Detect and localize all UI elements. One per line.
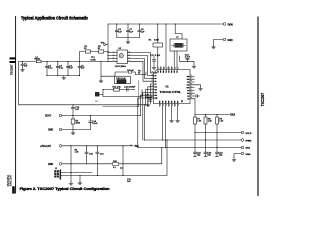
wire GND terminal [214, 40, 224, 46]
junction (166,24) [165, 23, 166, 24]
ground top cap bank [127, 38, 129, 40]
junction (108,52.5) [107, 52, 108, 53]
terminal GND left [59, 128, 62, 131]
wire bus SCL [195, 132, 241, 134]
svg-text:JUNE 2007: JUNE 2007 [11, 174, 13, 186]
junction (97.3,175.5) [97, 175, 98, 176]
capacitor C4 [67, 62, 69, 76]
junction (71,172.6) [70, 172, 71, 173]
svg-text:GND: GND [246, 154, 251, 156]
resistor R2 on rail B [99, 50, 104, 53]
junction (217,147.5) [216, 147, 217, 148]
svg-text:C17 0.1uF: C17 0.1uF [151, 55, 161, 57]
svg-text:C9 1uF: C9 1uF [127, 70, 135, 72]
resistor R5 vertical [72, 116, 74, 130]
junction (123,175.5) [122, 175, 123, 176]
junction (162.6,140) [162, 139, 163, 140]
ground top right [212, 45, 216, 49]
capacitor C15 [86, 146, 88, 164]
svg-text:C12 1000pF: C12 1000pF [124, 87, 136, 89]
svg-text:XOUT: XOUT [45, 116, 52, 118]
svg-text:Typical Application Circuit Sc: Typical Application Circuit Schematic [21, 15, 88, 20]
wire row1 net [101, 62, 146, 77]
crystal Y1 [172, 43, 186, 47]
terminal GND right [241, 152, 244, 155]
pin1 mark [181, 100, 183, 102]
QFN bottom pins [160, 104, 178, 107]
svg-text:Figure 2. TSC2007 Typical Circ: Figure 2. TSC2007 Typical Circuit Config… [20, 187, 110, 191]
terminal SDA [241, 139, 244, 142]
QFN left pins [151, 76, 154, 82]
terminal VIN [223, 23, 226, 26]
junction (147.8,104.8) [147, 104, 148, 105]
junction (47,61.5) [46, 61, 47, 62]
terminal GND top [223, 38, 226, 41]
svg-text:REA: REA [230, 114, 235, 117]
junction (157.8,24) [157, 23, 158, 24]
capacitor C8 [138, 24, 140, 38]
junction (47,75.5) [46, 75, 47, 76]
ground cap bank [62, 76, 66, 80]
junction (187.5,61.3) [187, 61, 188, 62]
capacitor C12 row [126, 88, 128, 91]
testpoint TP2 [104, 44, 106, 46]
wire block return [103, 81, 139, 107]
junction (68,75.5) [67, 75, 68, 76]
terminal XOUT [59, 114, 62, 117]
wire bus SCL lower [61, 140, 167, 176]
junction (217,147.5) [216, 147, 217, 148]
junction (205.5,114.5) [205, 114, 206, 115]
wire XOUT [62, 115, 140, 117]
wire V1 riser to top rail C [107, 24, 109, 62]
ground R5 [71, 131, 75, 135]
svg-text:SDA: SDA [246, 146, 251, 149]
junction (71,163.8) [70, 163, 71, 164]
junction (167,140) [166, 139, 167, 140]
junction (22.5,61.5) [22, 61, 23, 62]
terminal PENIRQ [241, 146, 244, 149]
resistor R9 pullup [216, 115, 218, 148]
wire left branch down to lower rail [19, 62, 148, 105]
terminal +5V [59, 144, 62, 147]
wire R6 gnd drop [70, 164, 72, 182]
junction (144.3,104.8) [144, 104, 145, 105]
capacitor C17 left of QFN [153, 57, 155, 66]
junction (123,145.8) [122, 145, 123, 146]
junction (73,115.5) [72, 115, 73, 116]
page left rule [15, 16, 17, 194]
svg-text:GND: GND [48, 164, 53, 166]
capacitor C24 [216, 148, 219, 157]
resistor R10 on wire [113, 162, 119, 165]
oscillator U2 box [117, 50, 128, 64]
QFN right pins [190, 76, 194, 98]
wire bus PENIRQ [138, 147, 242, 149]
junction (101,61.5) [100, 61, 101, 62]
junction (80,175.5) [79, 175, 80, 176]
wire gnd2 rail [62, 148, 162, 164]
QFN top pins [158, 67, 177, 70]
capacitor C7 [127, 24, 129, 38]
capacitor C2 [46, 62, 48, 76]
terminal SCL [241, 131, 244, 134]
wire U2 left pins [108, 53, 117, 62]
svg-text:SCLK: SCLK [246, 133, 252, 135]
wire XOUT feed riser [140, 95, 153, 115]
wire row3 lower [103, 90, 142, 97]
U2 pin label smudges [113, 52, 130, 62]
wire top cap bank bottom rail [117, 37, 140, 39]
wire pullup rail [195, 114, 229, 116]
capacitor C14 [89, 116, 91, 130]
crystal Y1 box [170, 39, 187, 51]
left margin logo bars [10, 57, 16, 63]
resistor R12 on row1 [128, 71, 131, 73]
svg-text:OSC12MHz: OSC12MHz [115, 66, 126, 68]
svg-text:1000pF: 1000pF [145, 97, 153, 99]
ferrite bead L1 [36, 60, 41, 63]
svg-text:TOUCH CTRL: TOUCH CTRL [160, 91, 182, 94]
svg-text:TSC2007: TSC2007 [260, 92, 265, 106]
resistor R6 [70, 146, 72, 164]
oscillator U2 circle [119, 54, 123, 58]
junction (156.6,98) [156, 97, 157, 98]
junction (134,24) [127, 23, 128, 24]
junction (147,24) [139, 23, 140, 24]
wire GND left [62, 129, 90, 131]
svg-text:GND: GND [48, 130, 53, 132]
wire QFN bottom-left thermal [148, 98, 154, 103]
component box U3 [115, 76, 131, 84]
junction (68,61.5) [67, 61, 68, 62]
junction (161.8,147.5) [161, 147, 162, 148]
junction (79.7,61.5) [79, 61, 80, 62]
svg-text:R11 2.0k: R11 2.0k [113, 87, 122, 89]
component TP dark [95, 92, 99, 96]
ground row1 [100, 76, 102, 79]
connector J1 pads [54, 169, 61, 179]
page right rule [257, 17, 259, 197]
svg-text:5VIN: 5VIN [228, 25, 233, 27]
wire GND T4 [234, 154, 241, 158]
wire riser to upper rail B [79, 52, 81, 76]
resistor R3 0-ohm jumper [157, 24, 159, 67]
junction (57.8,61.5) [57, 61, 58, 62]
junction (145.3,104.8) [145, 104, 146, 105]
wire U2 right pin 3 [128, 59, 154, 79]
resistor R8 pullup [205, 115, 207, 141]
svg-text:BEAD: BEAD [35, 58, 41, 61]
junction (165.6,147.5) [165, 147, 166, 148]
ground stub x80 [79, 176, 81, 182]
junction (205.5,140) [205, 139, 206, 140]
junction (71,145.8) [70, 145, 71, 146]
wire bus SDA [144, 139, 241, 141]
junction (140.3,115.5) [140, 115, 141, 116]
junction (97.3,145.8) [97, 145, 98, 146]
wire J1 upper [61, 172, 92, 174]
junction (195,132.5) [194, 132, 195, 133]
IC U1 QFN body [154, 70, 190, 104]
svg-text:5VA: 5VA [135, 145, 140, 148]
junction (175.2,24) [175, 23, 176, 24]
wire cap-bank bottom rail [47, 75, 80, 77]
ground C1 [21, 68, 25, 72]
capacitor C3 [57, 62, 59, 76]
junction (108,55.5) [107, 55, 108, 56]
wire drop from 5V rail [122, 146, 124, 176]
junction (103,89.6) [102, 89, 103, 90]
junction (121,24) [116, 23, 117, 24]
capacitor C23 [204, 140, 207, 156]
wire staircase left pins [138, 98, 154, 148]
wire rail drop to QFN top [165, 24, 167, 67]
capacitor C13 between rails [72, 105, 74, 116]
wire crystal to QFN pins [174, 51, 177, 67]
junction (108,58.5) [107, 58, 108, 59]
capacitor C6 [116, 24, 118, 38]
svg-text:0.0W: 0.0W [154, 39, 159, 41]
QFN pin name smudges [154, 70, 189, 103]
junction (79.3,75.5) [79, 75, 80, 76]
junction (57.8,75.5) [57, 75, 58, 76]
svg-text:4.7uF: 4.7uF [185, 57, 191, 59]
wire U2 right pin 2 [128, 56, 154, 76]
capacitor C5 on riser [78, 66, 81, 67]
junction (73,104.8) [72, 104, 73, 105]
QFN bottom pin drops [171, 107, 173, 119]
svg-text:TSC2007: TSC2007 [11, 64, 14, 75]
capacitor C1 input [22, 62, 24, 68]
svg-text:0.005: 0.005 [91, 59, 97, 61]
wire REA feed from QFN [193, 99, 196, 115]
wire Z drop to crystal box [175, 24, 182, 39]
junction (131,145) [130, 144, 131, 145]
junction (90.3,115.5) [90, 115, 91, 116]
resistor R7 pullup [194, 115, 196, 133]
svg-text:0.1uF: 0.1uF [92, 123, 98, 125]
wire 5V rail [62, 145, 133, 147]
junction (86.5,145.8) [86, 145, 87, 146]
capacitor C18 right of QFN top [180, 56, 195, 64]
terminal GND 2 [59, 162, 62, 165]
resistor R1 on rail B [80, 51, 109, 53]
wire U2 right pin 4 [128, 61, 154, 81]
wire U2 right pin 1 [128, 53, 154, 73]
capacitor C20 right of QFN bottom [194, 95, 199, 98]
wire supply rail A [19, 61, 108, 63]
junction (144.3,140) [144, 139, 145, 140]
wire top rail C [108, 23, 223, 25]
junction (217,114.5) [216, 114, 217, 115]
svg-text:GND: GND [228, 40, 233, 42]
capacitor C16 [96, 146, 98, 176]
svg-text:+5V/+3.3V: +5V/+3.3V [40, 146, 51, 148]
wire QFN right gnd [194, 85, 200, 87]
resistor R11 row [99, 90, 134, 97]
junction (134,89.6) [133, 89, 134, 90]
svg-text:C10 0.1uF: C10 0.1uF [116, 78, 126, 80]
capacitor C22 [194, 133, 197, 157]
svg-text:/PENI: /PENI [246, 140, 252, 142]
